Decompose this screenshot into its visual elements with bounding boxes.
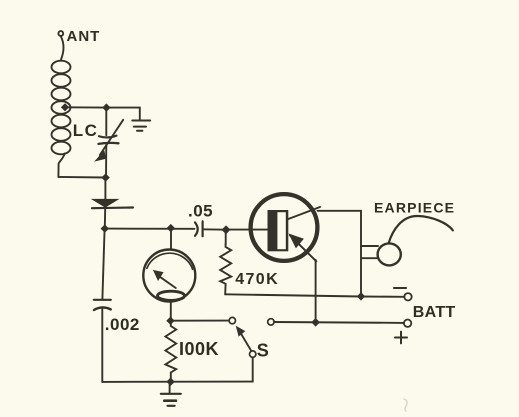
svg-text:ANT: ANT [67,28,101,45]
transistor emitter line [290,234,317,261]
node junction base [222,226,229,233]
battery minus terminal [404,293,411,300]
antenna terminal ANT [58,31,63,36]
detector stem top wire [170,228,172,250]
inductor L1 coil [52,61,71,177]
switch S pole [250,351,256,357]
svg-text:470K: 470K [235,271,279,288]
variable capacitor LC bottom plate [99,143,119,144]
node junction left [101,225,108,232]
capacitor C1 .05 right plate [202,221,204,236]
battery plus terminal [404,320,411,327]
resistor R2 100K [165,321,176,382]
earpiece lead top [361,245,378,247]
capacitor C2 .002 top plate [94,299,111,301]
diode D1 [92,200,133,209]
wire node to switch [171,320,230,322]
wire tap [65,106,106,108]
left vertical wire [102,229,104,299]
node detector stem top [167,225,174,232]
transistor collector line [288,207,320,219]
wire [203,228,226,230]
wire R1 bottom [225,294,361,296]
capacitor C2 .002 bottom plate [94,307,111,310]
wire [104,208,106,228]
crystal detector X1 [143,250,195,302]
minus sign [394,287,406,289]
variable capacitor arrow [96,120,124,161]
wire [105,145,107,178]
svg-text:.05: .05 [188,202,213,221]
plus sign [395,332,407,344]
transistor base wire [226,229,268,231]
switch S contact right [268,319,274,325]
node junction bottom of LC [102,174,109,181]
wire collector to earpiece [318,211,362,296]
svg-text:EARPIECE: EARPIECE [374,200,455,216]
wire BATT plus to switch [274,321,404,324]
wire emitter down [315,260,317,323]
coil tap junction [62,104,69,111]
wire to ground [106,108,139,120]
variable capacitor LC top plate [99,136,117,138]
ground bottom [161,382,181,406]
svg-text:.002: .002 [105,315,140,334]
faint print smudge [404,399,407,411]
node earpiece bottom [358,293,365,300]
capacitor C1 .05 left plate [195,222,198,235]
earpiece lead bottom [362,257,378,259]
wire switch pole down [252,357,254,381]
wire coil bottom to node [58,176,105,179]
ground [132,121,150,131]
bottom wire [102,381,252,383]
wire stub to R1 [225,230,227,244]
switch S contact left [229,317,235,323]
svg-text:BATT: BATT [413,304,456,321]
wire [105,108,107,136]
switch arm [237,327,252,351]
transistor Q1 [251,194,318,261]
earpiece E1 [378,216,453,265]
wire [61,36,64,59]
detector bottom stem [170,302,172,321]
wire horizontal to cap [105,228,195,230]
resistor R1 470K [220,244,231,294]
node detector/R2 [167,317,174,324]
node junction top of LC [103,104,110,111]
wire [104,178,106,199]
node ground junction [167,378,174,385]
svg-text:I00K: I00K [179,339,219,359]
svg-text:S: S [257,341,269,361]
svg-text:LC: LC [73,121,98,140]
node emitter junction [312,319,319,326]
wire [101,309,103,382]
wire to BATT minus [361,296,404,298]
